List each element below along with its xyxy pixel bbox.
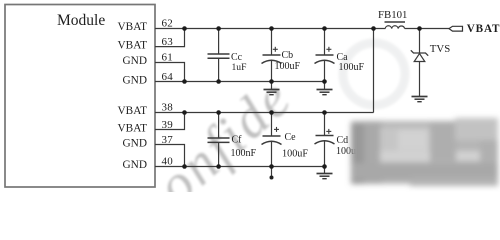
- svg-text:TVS: TVS: [430, 43, 450, 55]
- svg-text:Cb: Cb: [282, 50, 294, 61]
- svg-text:VBAT: VBAT: [118, 122, 148, 134]
- svg-text:100nF: 100nF: [231, 148, 257, 159]
- TVS diode: [411, 29, 428, 97]
- wire pin39 stub: [155, 113, 185, 130]
- net port VBAT: [449, 26, 463, 31]
- ferrite bead FB101: [385, 22, 406, 29]
- capacitor Ca: [315, 29, 335, 82]
- svg-text:VBAT: VBAT: [118, 105, 148, 117]
- svg-text:VBAT: VBAT: [118, 39, 148, 51]
- censor pixel block: [351, 118, 498, 186]
- svg-text:VBAT: VBAT: [467, 23, 500, 35]
- ground under TVS: [412, 97, 428, 102]
- capacitor Cd: [315, 113, 335, 167]
- wire FB101 to node: [405, 28, 449, 30]
- wire pin38 rail bottom section: [155, 112, 374, 114]
- svg-text:Module: Module: [57, 12, 105, 29]
- svg-text:FB101: FB101: [378, 9, 407, 21]
- wire pin40 bottom rail lower section: [155, 166, 325, 168]
- ground under Cb: [264, 82, 280, 95]
- svg-text:1uF: 1uF: [232, 62, 247, 73]
- wire pin62 top rail: [155, 28, 385, 30]
- capacitor Cc: [208, 29, 230, 82]
- svg-text:61: 61: [162, 51, 174, 63]
- svg-text:Cd: Cd: [337, 135, 349, 146]
- svg-text:GND: GND: [123, 159, 147, 171]
- svg-text:100uF: 100uF: [282, 149, 308, 160]
- watermark diagonal text: [145, 66, 304, 218]
- capacitor Cf: [208, 113, 230, 167]
- svg-text:Ce: Ce: [285, 132, 297, 143]
- watermark swoosh ring: [343, 43, 405, 105]
- svg-text:62: 62: [162, 17, 174, 29]
- svg-text:100uF: 100uF: [275, 61, 301, 72]
- wire pin37 stub: [155, 145, 185, 167]
- svg-text:GND: GND: [123, 137, 147, 149]
- svg-text:100uF: 100uF: [339, 62, 365, 73]
- ground under Cd: [317, 167, 333, 179]
- wire vertical connector top rail to lower section: [373, 29, 375, 113]
- svg-text:40: 40: [162, 155, 174, 167]
- ground stub node under Ce: [270, 167, 274, 180]
- svg-text:GND: GND: [123, 74, 147, 86]
- wire pin64 bottom rail top section: [155, 81, 325, 83]
- svg-text:38: 38: [162, 101, 174, 113]
- ground under Ca: [317, 82, 333, 95]
- module box U1: [5, 5, 155, 188]
- capacitor Cb: [262, 29, 282, 82]
- svg-text:GND: GND: [123, 55, 147, 67]
- svg-text:VBAT: VBAT: [118, 21, 148, 33]
- capacitor Ce: [262, 113, 282, 167]
- svg-text:Cf: Cf: [232, 135, 243, 146]
- wire pin63 stub: [155, 29, 185, 47]
- wire pin61 stub: [155, 63, 185, 82]
